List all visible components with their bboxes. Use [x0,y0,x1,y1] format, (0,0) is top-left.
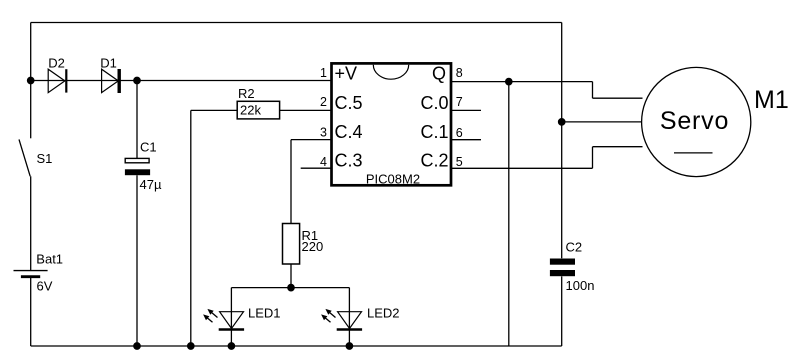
svg-text:5: 5 [456,155,463,169]
wire diode row to IC pin1 [31,80,331,82]
resistor R1 [283,224,300,265]
wire LED1 anode/cathode vertical [230,288,232,346]
svg-text:LED2: LED2 [367,306,400,321]
svg-text:4: 4 [320,155,327,169]
svg-text:C.2: C.2 [420,151,448,171]
svg-text:22k: 22k [240,103,261,118]
wire top rail [31,22,562,24]
svg-text:47µ: 47µ [140,177,162,192]
resistor R2 [237,101,279,119]
svg-text:S1: S1 [37,151,53,166]
wire R1 to LED node [290,264,292,288]
svg-text:7: 7 [456,95,463,109]
diode D1 [102,69,119,92]
svg-text:C.3: C.3 [335,151,363,171]
svg-text:2: 2 [320,95,327,109]
battery Bat1 [14,270,48,272]
servo minus bar [674,152,713,154]
wire LED2 anode/cathode vertical [348,288,350,346]
node junction C1 / bottom rail [134,343,140,349]
wire pin4 stub [301,167,331,169]
node junction R1 / LED crossbar [288,284,294,290]
capacitor C2 plates [550,259,575,265]
svg-text:C.4: C.4 [335,122,363,142]
switch S1 [19,139,30,176]
wire vertical pin8 to bottom rail [508,82,510,346]
LED LED2 [338,312,362,329]
svg-text:+V: +V [335,63,358,83]
node junction pin8 / C2-left vertical [506,78,512,84]
svg-text:1: 1 [320,66,327,80]
svg-text:D1: D1 [100,56,117,71]
node junction diode row / C1 [134,77,140,83]
svg-text:LED1: LED1 [248,306,281,321]
LED1 arrows [203,309,217,322]
node junction right vertical / servo middle [559,119,565,125]
svg-text:R2: R2 [238,86,255,101]
wire pin8 to servo [451,82,643,99]
svg-text:C.1: C.1 [420,122,448,142]
capacitor C1 plates [125,158,149,162]
wire servo middle [562,121,642,123]
wire battery to bottom rail [30,278,32,346]
svg-text:PIC08M2: PIC08M2 [366,172,420,187]
svg-text:6V: 6V [37,278,53,293]
svg-text:8: 8 [456,66,463,80]
wire bottom rail [31,345,562,347]
svg-text:Servo: Servo [660,107,729,135]
LED2 arrows [321,309,335,322]
node junction left vertical / diode row [28,77,34,83]
svg-text:Q: Q [432,63,446,83]
node junction LED1 / bottom rail [228,343,234,349]
node junction R2 branch / bottom rail [188,343,194,349]
wire switch to battery [30,176,32,270]
svg-text:M1: M1 [754,86,789,114]
IC notch [373,65,408,80]
svg-text:220: 220 [302,239,324,254]
wire pin3 to R1 [291,140,331,224]
svg-text:C.5: C.5 [335,93,363,113]
svg-text:6: 6 [456,126,463,140]
wire pin2 through R2 [191,109,331,111]
LED LED1 [220,312,244,329]
svg-text:C.0: C.0 [420,93,448,113]
wire C1 branch [136,81,138,347]
svg-text:100n: 100n [566,278,595,293]
wire pin7 stub [451,109,481,111]
diode D2 [48,69,65,92]
node junction LED2 / bottom rail [346,343,352,349]
wire pin6 stub [451,139,481,141]
op-amp U1 IC PIC08M2 body [332,63,452,185]
svg-text:3: 3 [320,126,327,140]
wire LED crossbar [231,287,349,289]
wire pin5 to servo [451,147,643,169]
wire R2 left vertical [190,110,192,346]
wire right vertical through C2 [561,23,563,347]
svg-text:C1: C1 [140,140,157,155]
svg-text:C2: C2 [566,239,583,254]
svg-text:D2: D2 [48,56,65,71]
svg-text:Bat1: Bat1 [36,252,63,267]
motor M1 servo circle [642,67,751,176]
wire left vertical top [30,23,32,139]
